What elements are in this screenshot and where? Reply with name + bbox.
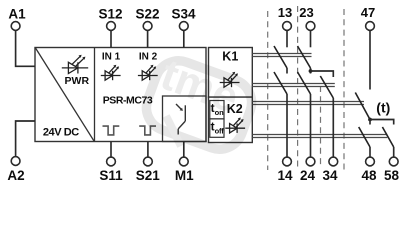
wire 23	[310, 30, 312, 47]
wire A2 to box	[16, 121, 35, 157]
contact K2 delayed blade 58	[382, 127, 393, 147]
svg-text:IN 2: IN 2	[139, 52, 158, 63]
wire to 14	[286, 94, 288, 157]
power section divider	[94, 48, 96, 142]
junction wire to 34 column	[311, 71, 334, 77]
wire S12	[110, 30, 112, 47]
svg-text:14: 14	[277, 168, 293, 183]
wire 13	[286, 30, 288, 47]
LED IN2	[138, 65, 158, 80]
node junction 47/48/58	[368, 118, 372, 122]
pulse symbol S11	[103, 126, 120, 135]
wire to 24	[310, 94, 312, 157]
t_on box	[210, 101, 224, 119]
K2 linkage pair upper	[252, 102, 364, 105]
wire stub 13/14	[286, 68, 288, 74]
svg-text:S21: S21	[136, 168, 161, 183]
contact K2 timed blade	[355, 93, 370, 120]
power section diagonal	[36, 48, 95, 141]
contact K2 ch1 blade	[274, 72, 287, 94]
wire to 48	[369, 147, 371, 157]
svg-text:S22: S22	[135, 6, 159, 21]
svg-text:S12: S12	[98, 6, 122, 21]
relay K2 box	[209, 97, 253, 142]
K2 linkage pair lower	[252, 135, 387, 138]
svg-text:IN 1: IN 1	[102, 52, 121, 63]
svg-text:A2: A2	[7, 168, 24, 183]
node junction 23/34	[309, 69, 313, 73]
main device box	[35, 48, 206, 142]
contact K2 ch3 blade	[320, 76, 333, 98]
terminal 24	[306, 157, 315, 166]
dashed separator line 3	[320, 86, 322, 168]
terminal 48	[366, 157, 375, 166]
svg-text:47: 47	[361, 5, 375, 20]
svg-text:13: 13	[278, 5, 292, 20]
wire to 58	[393, 147, 395, 157]
junction wire to 58 column	[370, 120, 394, 125]
wire S11	[110, 142, 112, 158]
terminal 34	[329, 157, 338, 166]
LED K2	[225, 118, 245, 133]
svg-text:(t): (t)	[376, 100, 390, 116]
semiconductor output symbol	[176, 104, 185, 135]
K1 linkage pair lower	[252, 84, 334, 87]
wire S22	[147, 30, 149, 47]
contact K1 ch2 blade	[298, 46, 311, 68]
contact K2 delayed blade 48	[359, 127, 370, 147]
watermark	[140, 50, 259, 156]
relay K1 box	[209, 48, 253, 98]
wire S34	[183, 30, 185, 47]
wire 47	[369, 30, 371, 89]
wire stub 48	[369, 120, 371, 125]
LED K1	[220, 72, 240, 87]
K1 linkage pair upper	[252, 54, 311, 57]
pulse symbol S21	[139, 126, 156, 135]
dashed separator line 4	[343, 9, 345, 170]
svg-text:24: 24	[300, 168, 316, 183]
svg-text:K1: K1	[222, 50, 238, 64]
wire M1	[183, 142, 185, 158]
svg-text:A1: A1	[8, 6, 26, 21]
terminal 14	[283, 157, 292, 166]
terminal 58	[389, 157, 398, 166]
wire to 34	[332, 98, 334, 157]
wire S21	[147, 142, 149, 158]
svg-text:58: 58	[384, 168, 400, 183]
svg-text:PWR: PWR	[65, 75, 90, 87]
dashed separator line 1	[267, 11, 269, 170]
dashed separator line 2	[297, 6, 299, 170]
svg-text:48: 48	[361, 168, 377, 183]
svg-text:S34: S34	[171, 6, 196, 21]
svg-text:24V DC: 24V DC	[43, 127, 79, 139]
svg-text:M1: M1	[175, 168, 194, 183]
svg-text:23: 23	[299, 5, 313, 20]
LED IN1	[101, 65, 121, 80]
contact K1 ch1 blade	[274, 46, 287, 68]
wire stub 23/24	[310, 68, 312, 74]
inner output box	[163, 96, 207, 142]
svg-text:S11: S11	[99, 168, 123, 183]
wire A1 to box	[16, 30, 35, 66]
contact K2 ch2 blade	[298, 72, 311, 94]
svg-text:34: 34	[322, 168, 338, 183]
LED PWR	[62, 55, 88, 74]
t_off box	[210, 119, 224, 137]
